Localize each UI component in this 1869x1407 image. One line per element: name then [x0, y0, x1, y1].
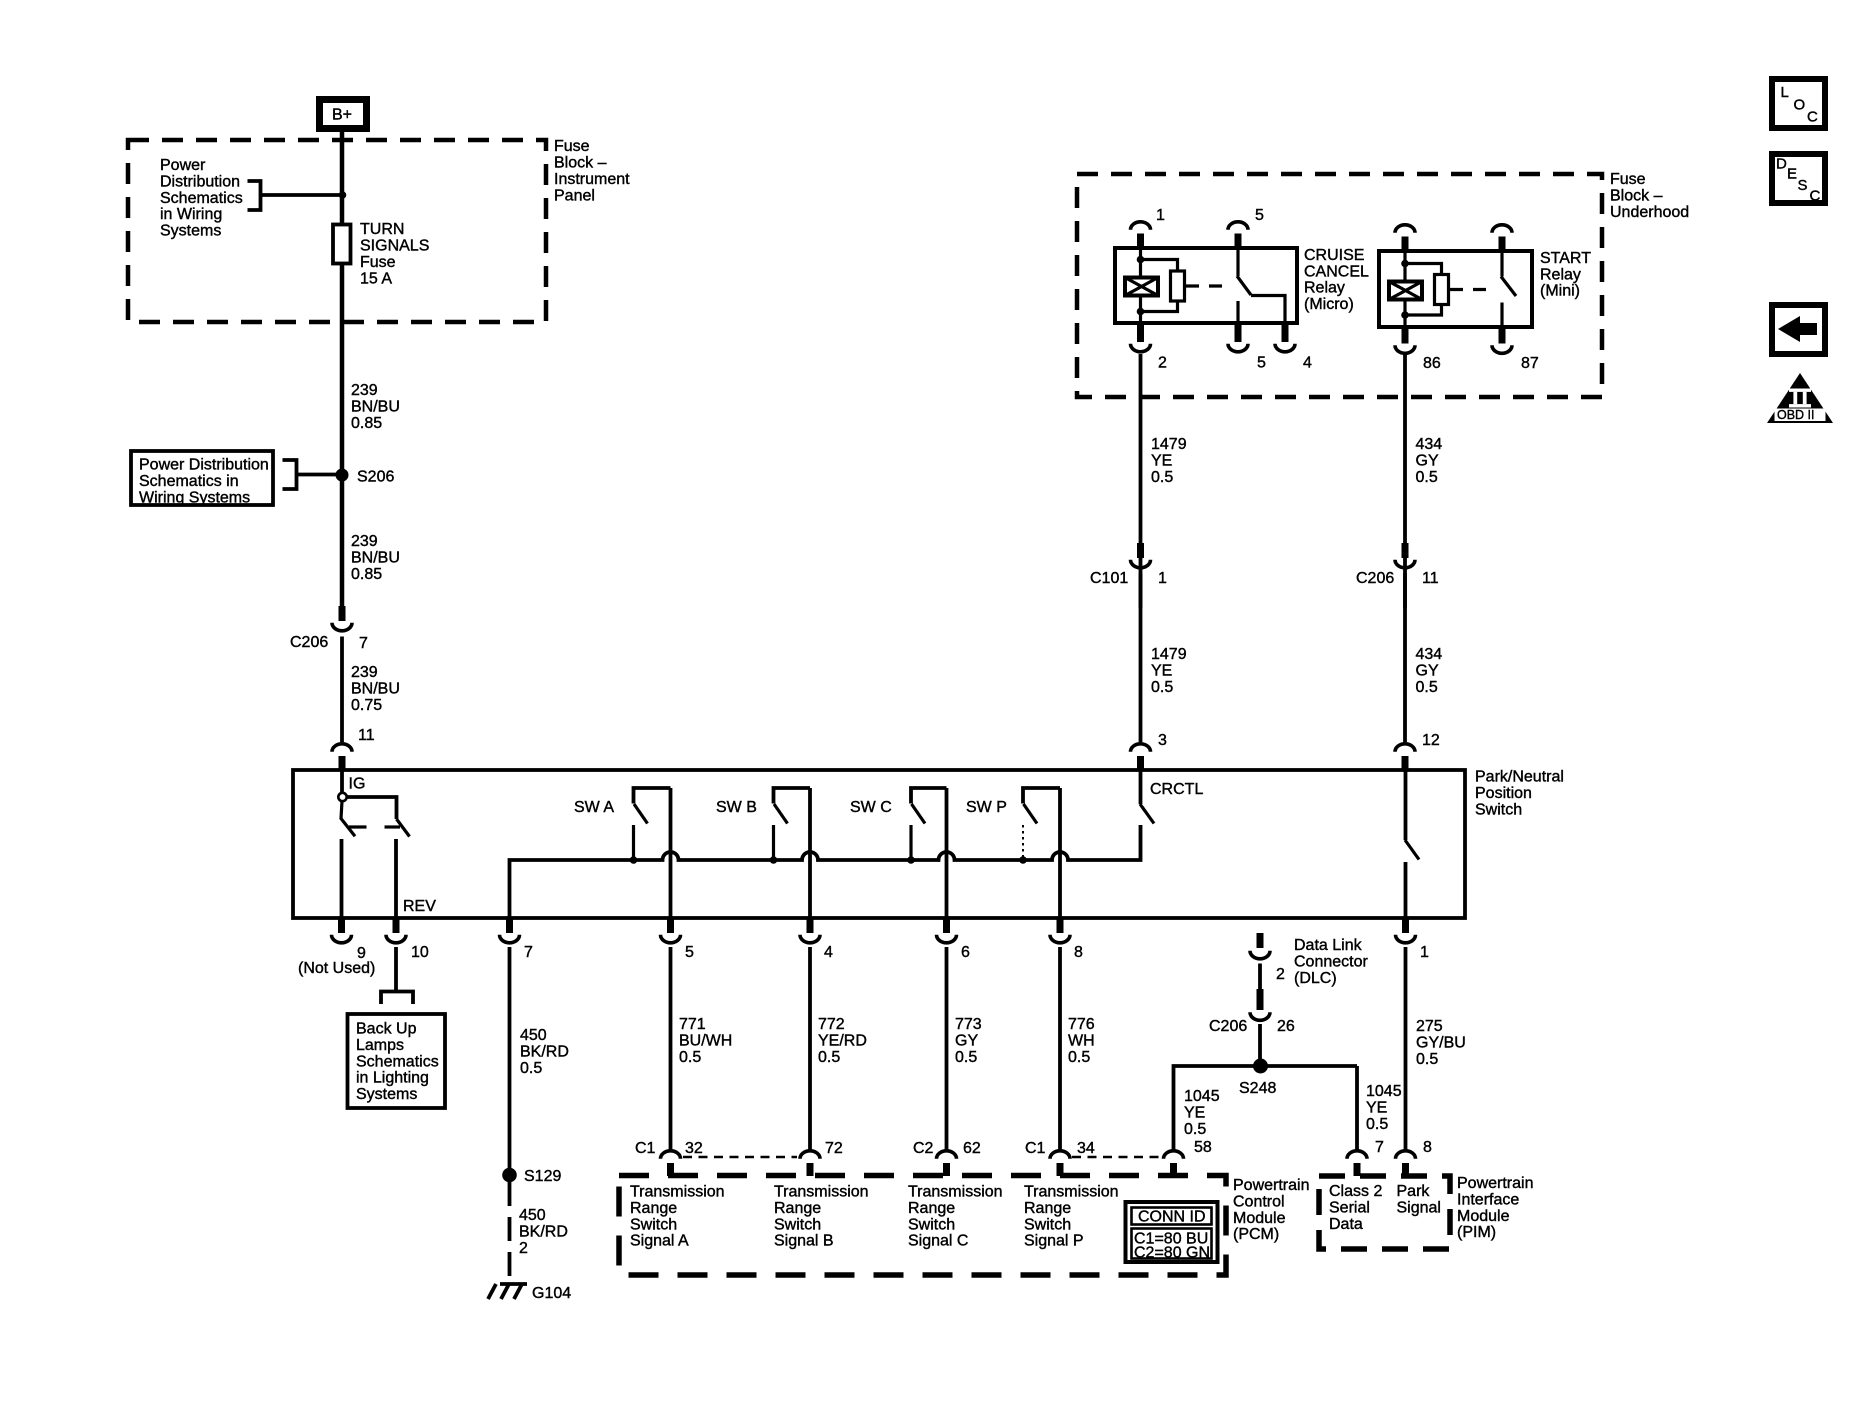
svg-text:GY/BU: GY/BU — [1416, 1034, 1466, 1051]
svg-text:GY: GY — [955, 1032, 978, 1049]
svg-text:0.5: 0.5 — [1416, 469, 1438, 486]
svg-text:Systems: Systems — [160, 223, 221, 240]
connector pin 2 cruise relay (bottom) — [1131, 323, 1168, 372]
svg-text:Systems: Systems — [356, 1086, 417, 1103]
svg-text:B+: B+ — [332, 107, 352, 124]
svg-text:5: 5 — [1255, 207, 1264, 224]
svg-text:REV: REV — [403, 898, 436, 915]
svg-text:in Wiring: in Wiring — [160, 206, 222, 223]
svg-text:0.5: 0.5 — [818, 1049, 840, 1066]
svg-text:GY: GY — [1416, 662, 1439, 679]
svg-text:Transmission: Transmission — [908, 1184, 1003, 1201]
wire 450 BK/RD 2 (dashed) S129 to G104 — [508, 1182, 512, 1284]
connector pin 8 — [1050, 918, 1083, 961]
svg-text:Signal A: Signal A — [630, 1233, 689, 1250]
svg-text:Back Up: Back Up — [356, 1021, 417, 1038]
svg-text:86: 86 — [1423, 355, 1441, 372]
svg-text:(DLC): (DLC) — [1294, 970, 1337, 987]
wire 239 BN/BU 0.85 from S206 to C206 — [340, 475, 345, 607]
svg-text:BN/BU: BN/BU — [351, 398, 400, 415]
svg-text:Power: Power — [160, 157, 206, 174]
label Transmission Range Switch Signal C — [908, 1184, 1003, 1250]
svg-text:62: 62 — [963, 1140, 981, 1157]
svg-text:GY: GY — [1416, 452, 1439, 469]
power symbol B+ — [320, 100, 367, 129]
svg-text:1045: 1045 — [1184, 1088, 1220, 1105]
wire 434 GY 0.5 from start pin 86 to C206 — [1403, 354, 1407, 608]
svg-text:7: 7 — [359, 635, 368, 652]
svg-text:12: 12 — [1422, 732, 1440, 749]
label Powertrain Control Module (PCM) — [1233, 1177, 1309, 1243]
label wire 239 BN/BU 0.85 (second) — [351, 533, 400, 583]
svg-text:Fuse: Fuse — [554, 138, 590, 155]
svg-text:1479: 1479 — [1151, 646, 1187, 663]
label Transmission Range Switch Signal P — [1024, 1184, 1119, 1250]
connector PIM pin 7 — [1347, 1139, 1384, 1176]
svg-text:Lamps: Lamps — [356, 1037, 404, 1054]
svg-text:Schematics: Schematics — [160, 190, 243, 207]
svg-text:YE/RD: YE/RD — [818, 1032, 867, 1049]
fuse block instrument panel dashed box — [128, 140, 546, 322]
connector pin 7 — [500, 918, 534, 961]
svg-text:G104: G104 — [532, 1285, 571, 1302]
wire DLC to C206 — [1258, 964, 1262, 991]
connector PCM pin 72 — [800, 1140, 843, 1176]
svg-text:C: C — [1810, 188, 1821, 205]
switch SW B — [716, 788, 810, 864]
switch SW C — [850, 788, 947, 864]
svg-text:IG: IG — [349, 776, 366, 793]
relay cruise mechanical dashed link — [1186, 284, 1230, 287]
label Power Distribution Schematics in Wiring Systems (top) — [160, 157, 243, 240]
svg-text:Fuse: Fuse — [360, 254, 396, 271]
svg-text:0.5: 0.5 — [955, 1049, 977, 1066]
svg-text:YE: YE — [1151, 662, 1172, 679]
connector C206 pin 11 — [1356, 543, 1439, 587]
wire IG contact to pin 9 (not used) — [340, 839, 344, 918]
label wire 1479 YE 0.5 (lower) — [1151, 646, 1187, 696]
wire SW P output to pin 8 — [1058, 788, 1062, 918]
wire 434 GY 0.5 from C206 to pin 12 — [1403, 574, 1407, 743]
connector C101 pin 1 — [1090, 543, 1167, 587]
label Powertrain Interface Module (PIM) — [1457, 1175, 1533, 1241]
svg-text:1: 1 — [1420, 944, 1429, 961]
svg-text:Position: Position — [1475, 785, 1532, 802]
svg-text:BK/RD: BK/RD — [520, 1043, 569, 1060]
svg-text:2: 2 — [1158, 355, 1167, 372]
switch park signal (pin 12 to pin 1) — [1405, 770, 1419, 918]
label Data Link Connector (DLC) — [1294, 937, 1368, 987]
svg-text:Range: Range — [1024, 1200, 1071, 1217]
connector C206 pin 26 — [1209, 989, 1295, 1035]
node junction on B+ feed — [339, 191, 347, 199]
connector pin 10 — [386, 918, 429, 961]
powertrain interface module input dashed box — [1319, 1176, 1450, 1249]
label wire 275 GY/BU 0.5 — [1416, 1018, 1466, 1068]
svg-text:Module: Module — [1457, 1208, 1510, 1225]
fuse block underhood dashed box — [1077, 174, 1602, 397]
splice S129 — [502, 1168, 517, 1183]
connector C206 pin 7 — [290, 606, 368, 652]
svg-text:Transmission: Transmission — [630, 1184, 725, 1201]
svg-text:Data: Data — [1329, 1216, 1363, 1233]
svg-text:72: 72 — [825, 1140, 843, 1157]
bracket from solid label box — [283, 460, 297, 489]
svg-text:11: 11 — [358, 727, 375, 744]
svg-text:Relay: Relay — [1304, 280, 1345, 297]
svg-text:10: 10 — [411, 944, 429, 961]
label wire 776 WH 0.5 — [1068, 1016, 1095, 1066]
svg-text:0.5: 0.5 — [1416, 1051, 1438, 1068]
svg-text:Control: Control — [1233, 1193, 1285, 1210]
svg-text:0.75: 0.75 — [351, 697, 382, 714]
svg-text:YE: YE — [1184, 1104, 1205, 1121]
label box Power Distribution Schematics in Wiring Systems (solid) — [131, 451, 273, 506]
svg-text:S206: S206 — [357, 469, 394, 486]
svg-text:87: 87 — [1521, 355, 1539, 372]
switch CRCTL — [1140, 770, 1203, 860]
wire internal bus with hops over switch outputs — [510, 825, 1141, 918]
wire connector face dashed link 32 to 72 — [683, 1156, 797, 1159]
svg-text:34: 34 — [1077, 1140, 1095, 1157]
label wire 772 YE/RD 0.5 — [818, 1016, 867, 1066]
label wire 1479 YE 0.5 (upper) — [1151, 436, 1187, 486]
bracket from Power Distribution label — [248, 181, 261, 210]
wire REV to pin 10 — [394, 839, 398, 918]
connector pin 9 (bottom of switch) — [298, 918, 375, 977]
svg-text:Connector: Connector — [1294, 953, 1368, 970]
svg-text:1: 1 — [1158, 570, 1167, 587]
bracket to back up lamps box — [381, 992, 413, 1005]
svg-text:in Lighting: in Lighting — [356, 1070, 429, 1087]
svg-text:Range: Range — [908, 1200, 955, 1217]
svg-text:Range: Range — [774, 1200, 821, 1217]
svg-text:Switch: Switch — [908, 1216, 955, 1233]
connector start relay top-left — [1395, 225, 1415, 252]
relay start mechanical dashed link — [1450, 288, 1492, 291]
connector pin 5 cruise relay (top) — [1228, 207, 1264, 249]
connector PIM pin 8 — [1396, 1139, 1433, 1176]
svg-text:E: E — [1787, 166, 1797, 183]
connector pin 11 into switch — [332, 727, 375, 771]
relay K START Relay (Mini) — [1379, 250, 1591, 327]
connector PCM C1 pin 34 — [1025, 1140, 1095, 1176]
svg-text:L: L — [1781, 84, 1789, 101]
svg-text:450: 450 — [520, 1027, 547, 1044]
svg-text:275: 275 — [1416, 1018, 1443, 1035]
connector pin 1 — [1396, 918, 1430, 961]
wire 239 BN/BU 0.85 from fuse to S206 — [340, 264, 345, 476]
svg-text:Class 2: Class 2 — [1329, 1183, 1382, 1200]
switch IG (common pole with circle terminal) — [338, 770, 409, 837]
svg-text:SW C: SW C — [850, 799, 892, 816]
svg-text:Signal P: Signal P — [1024, 1233, 1084, 1250]
svg-text:Signal B: Signal B — [774, 1233, 834, 1250]
label wire 434 GY 0.5 (lower) — [1416, 646, 1443, 696]
label wire 239 BN/BU 0.75 — [351, 664, 400, 714]
label Fuse Block - Instrument Panel — [554, 138, 630, 205]
svg-text:Signal: Signal — [1397, 1199, 1441, 1216]
svg-text:1: 1 — [1156, 207, 1165, 224]
svg-text:Instrument: Instrument — [554, 171, 630, 188]
svg-text:Switch: Switch — [1024, 1216, 1071, 1233]
svg-text:Underhood: Underhood — [1610, 204, 1689, 221]
svg-text:0.5: 0.5 — [1184, 1121, 1206, 1138]
label Park/Neutral Position Switch — [1475, 769, 1564, 819]
svg-text:0.5: 0.5 — [1151, 679, 1173, 696]
svg-text:Switch: Switch — [1475, 802, 1522, 819]
svg-text:BU/WH: BU/WH — [679, 1032, 732, 1049]
svg-text:Powertrain: Powertrain — [1233, 1177, 1309, 1194]
label wire 773 GY 0.5 — [955, 1016, 982, 1066]
wire B+ feed (342) from B+ box to fuse — [340, 132, 345, 224]
svg-text:4: 4 — [824, 944, 833, 961]
connector pin 3 into switch (CRCTL) — [1131, 732, 1168, 771]
svg-text:3: 3 — [1158, 732, 1167, 749]
svg-text:WH: WH — [1068, 1032, 1095, 1049]
svg-text:1045: 1045 — [1366, 1083, 1402, 1100]
svg-text:Park/Neutral: Park/Neutral — [1475, 769, 1564, 786]
svg-text:11: 11 — [1422, 570, 1439, 587]
relay K CRUISE CANCEL Relay (Micro) — [1115, 247, 1369, 323]
splice S248 — [1253, 1059, 1268, 1074]
svg-text:CANCEL: CANCEL — [1304, 263, 1369, 280]
svg-text:15 A: 15 A — [360, 271, 392, 288]
svg-text:Fuse: Fuse — [1610, 171, 1646, 188]
switch SW P (dotted contact stub) — [966, 788, 1060, 864]
svg-text:26: 26 — [1277, 1018, 1295, 1035]
label wire 450 BK/RD 2 — [519, 1207, 568, 1257]
svg-text:Park: Park — [1397, 1183, 1431, 1200]
ground G104 — [488, 1284, 571, 1302]
wire 275 GY/BU 0.5 pin 1 to PIM 8 — [1404, 947, 1408, 1151]
svg-text:TURN: TURN — [360, 221, 404, 238]
svg-text:CRUISE: CRUISE — [1304, 247, 1364, 264]
label wire 450 BK/RD 0.5 — [520, 1027, 569, 1077]
svg-text:Switch: Switch — [630, 1216, 677, 1233]
connector PCM pin 58 — [1164, 1139, 1212, 1176]
svg-text:0.5: 0.5 — [679, 1049, 701, 1066]
svg-text:2: 2 — [519, 1240, 528, 1257]
svg-text:Wiring Systems: Wiring Systems — [139, 489, 250, 506]
svg-text:450: 450 — [519, 1207, 546, 1224]
relay switch cruise (blade from pin 5 to pin 4) — [1237, 248, 1285, 323]
svg-text:BN/BU: BN/BU — [351, 549, 400, 566]
svg-text:239: 239 — [351, 382, 378, 399]
svg-text:7: 7 — [524, 944, 533, 961]
svg-text:(Not Used): (Not Used) — [298, 960, 375, 977]
svg-text:CRCTL: CRCTL — [1150, 781, 1203, 798]
svg-text:8: 8 — [1423, 1139, 1432, 1156]
svg-text:Block –: Block – — [554, 155, 607, 172]
svg-text:S248: S248 — [1239, 1080, 1276, 1097]
svg-text:S129: S129 — [524, 1168, 561, 1185]
svg-text:Power Distribution: Power Distribution — [139, 457, 269, 474]
svg-text:SIGNALS: SIGNALS — [360, 238, 429, 255]
wire SW B output to pin 4 — [808, 788, 812, 918]
connector pin 4 — [800, 918, 833, 961]
svg-text:Range: Range — [630, 1200, 677, 1217]
svg-text:58: 58 — [1194, 1139, 1212, 1156]
wire pin 10 to back up lamps bracket — [394, 947, 398, 990]
connector pin 1 cruise relay (top) — [1131, 207, 1166, 249]
svg-text:C1: C1 — [635, 1140, 656, 1157]
connector pin 4 cruise relay (bottom) — [1275, 323, 1312, 372]
park/neutral position switch box — [293, 770, 1465, 918]
svg-text:Transmission: Transmission — [774, 1184, 869, 1201]
svg-text:2: 2 — [1276, 966, 1285, 983]
svg-text:434: 434 — [1416, 436, 1443, 453]
svg-text:Powertrain: Powertrain — [1457, 1175, 1533, 1192]
icon back arrow box — [1772, 305, 1825, 354]
wire 772 YE/RD 0.5 pin 4 to PCM 72 — [808, 947, 812, 1151]
label wire 1045 YE 0.5 (right) — [1366, 1083, 1402, 1133]
label wire 239 BN/BU 0.85 — [351, 382, 400, 432]
svg-text:0.5: 0.5 — [1366, 1116, 1388, 1133]
svg-text:771: 771 — [679, 1016, 706, 1033]
svg-text:O: O — [1794, 97, 1806, 114]
svg-text:Serial: Serial — [1329, 1199, 1370, 1216]
svg-text:D: D — [1776, 156, 1787, 173]
svg-text:Schematics in: Schematics in — [139, 473, 239, 490]
label Park Signal — [1397, 1183, 1441, 1216]
svg-text:C2=80 GN: C2=80 GN — [1134, 1245, 1210, 1262]
svg-text:239: 239 — [351, 664, 378, 681]
svg-text:0.85: 0.85 — [351, 566, 382, 583]
connector pin 86 start relay (bottom) — [1395, 327, 1441, 372]
svg-text:Signal C: Signal C — [908, 1233, 968, 1250]
svg-text:(PCM): (PCM) — [1233, 1226, 1279, 1243]
fuse TURN SIGNALS 15 A — [333, 221, 429, 288]
svg-text:Schematics: Schematics — [356, 1053, 439, 1070]
svg-text:32: 32 — [685, 1140, 703, 1157]
svg-text:Interface: Interface — [1457, 1191, 1519, 1208]
connector DLC pin 2 — [1250, 933, 1285, 983]
svg-text:START: START — [1540, 250, 1591, 267]
relay coil start (wire, junction dots, coil box, resistor) — [1389, 251, 1449, 327]
svg-text:5: 5 — [1257, 355, 1266, 372]
svg-text:0.5: 0.5 — [1068, 1049, 1090, 1066]
svg-text:Data Link: Data Link — [1294, 937, 1363, 954]
svg-text:0.85: 0.85 — [351, 415, 382, 432]
svg-text:Distribution: Distribution — [160, 173, 240, 190]
svg-text:7: 7 — [1375, 1139, 1384, 1156]
svg-text:Switch: Switch — [774, 1216, 821, 1233]
svg-text:C206: C206 — [1209, 1018, 1247, 1035]
svg-text:C101: C101 — [1090, 570, 1128, 587]
label box Back Up Lamps Schematics in Lighting Systems — [348, 1014, 446, 1108]
svg-text:1479: 1479 — [1151, 436, 1187, 453]
wire S248 branch left to PCM 58 — [1174, 1066, 1358, 1151]
label Class 2 Serial Data — [1329, 1183, 1382, 1233]
label wire 1045 YE 0.5 (left) — [1184, 1088, 1220, 1138]
svg-text:776: 776 — [1068, 1016, 1095, 1033]
svg-text:0.5: 0.5 — [1151, 469, 1173, 486]
wire S248 branch right to PIM 7 — [1355, 1066, 1359, 1151]
svg-text:5: 5 — [685, 944, 694, 961]
wire 773 GY 0.5 pin 6 to PCM 62 — [945, 947, 949, 1151]
connector PCM C1 pin 32 — [635, 1140, 703, 1176]
connector start relay top-right — [1492, 225, 1512, 252]
svg-text:Relay: Relay — [1540, 266, 1581, 283]
svg-text:Panel: Panel — [554, 188, 595, 205]
svg-text:0.5: 0.5 — [1416, 679, 1438, 696]
svg-text:C206: C206 — [290, 634, 328, 651]
svg-text:Transmission: Transmission — [1024, 1184, 1119, 1201]
wire SW A output to pin 5 — [669, 788, 673, 918]
svg-text:(Micro): (Micro) — [1304, 296, 1354, 313]
relay switch start (blade) — [1501, 251, 1516, 327]
icon OBD II triangle — [1767, 373, 1833, 423]
connector pin 87 start relay (bottom) — [1492, 327, 1539, 372]
svg-text:YE: YE — [1151, 452, 1172, 469]
icon LOC box — [1772, 79, 1825, 128]
svg-text:SW B: SW B — [716, 799, 757, 816]
connector pin 6 — [937, 918, 971, 961]
svg-text:C1: C1 — [1025, 1140, 1046, 1157]
svg-text:0.5: 0.5 — [520, 1060, 542, 1077]
svg-text:8: 8 — [1074, 944, 1083, 961]
wire connector face dashed link 34 to 58 — [1072, 1156, 1161, 1159]
wire 1479 YE 0.5 from cruise pin 2 to C101 — [1139, 354, 1143, 608]
svg-text:239: 239 — [351, 533, 378, 550]
wire 771 BU/WH 0.5 pin 5 to PCM 32 — [669, 947, 673, 1151]
label wire 434 GY 0.5 (upper) — [1416, 436, 1443, 486]
wire SW C output to pin 6 — [945, 788, 949, 918]
label wire 771 BU/WH 0.5 — [679, 1016, 732, 1066]
label Fuse Block - Underhood — [1610, 171, 1689, 221]
svg-text:(Mini): (Mini) — [1540, 283, 1580, 300]
connector pin 12 into switch — [1395, 732, 1440, 771]
svg-text:YE: YE — [1366, 1099, 1387, 1116]
wire 450 BK/RD 0.5 pin 7 to S129 — [508, 947, 512, 1170]
label Transmission Range Switch Signal A — [630, 1184, 725, 1250]
splice S206 — [336, 469, 349, 482]
svg-text:(PIM): (PIM) — [1457, 1224, 1496, 1241]
svg-text:Module: Module — [1233, 1210, 1286, 1227]
svg-text:SW P: SW P — [966, 799, 1007, 816]
wire 1045 YE C206 to S248 — [1258, 1024, 1262, 1066]
svg-text:Block –: Block – — [1610, 187, 1663, 204]
connector pin 5 — [661, 918, 695, 961]
svg-text:C2: C2 — [913, 1140, 934, 1157]
wire 776 WH 0.5 pin 8 to PCM 34 — [1058, 947, 1062, 1151]
powertrain control module PCM dashed box — [619, 1176, 1226, 1276]
svg-text:OBD II: OBD II — [1777, 408, 1815, 422]
svg-text:4: 4 — [1303, 355, 1312, 372]
svg-text:BK/RD: BK/RD — [519, 1223, 568, 1240]
svg-text:S: S — [1798, 177, 1808, 194]
svg-text:CONN ID: CONN ID — [1138, 1209, 1206, 1226]
connector pin 5 cruise relay (bottom) — [1228, 323, 1266, 372]
label Transmission Range Switch Signal B — [774, 1184, 869, 1250]
relay coil cruise (wire, junction dots, coil box, resistor) — [1125, 248, 1185, 323]
svg-text:C: C — [1807, 109, 1818, 126]
CONN ID table — [1126, 1202, 1218, 1262]
wire bracket to splice S206 — [297, 473, 343, 477]
wire 239 BN/BU 0.75 from C206 to pin 11 — [340, 637, 344, 743]
icon DESC box — [1772, 154, 1825, 205]
svg-text:434: 434 — [1416, 646, 1443, 663]
svg-text:SW A: SW A — [574, 799, 614, 816]
svg-text:C206: C206 — [1356, 570, 1394, 587]
svg-text:BN/BU: BN/BU — [351, 680, 400, 697]
svg-text:6: 6 — [961, 944, 970, 961]
switch SW A — [574, 788, 671, 864]
svg-text:773: 773 — [955, 1016, 982, 1033]
wire 1479 YE 0.5 from C101 to pin 3 — [1139, 574, 1143, 743]
svg-text:772: 772 — [818, 1016, 845, 1033]
